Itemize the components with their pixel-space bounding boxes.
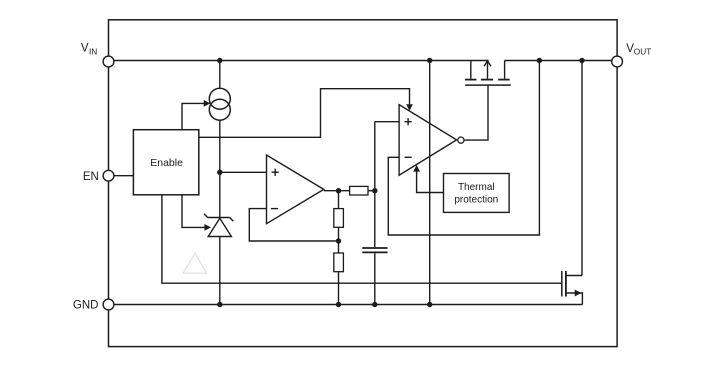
op-amp U1 error amplifier (267, 155, 324, 224)
label VOUT (626, 43, 651, 57)
Enable block (133, 130, 198, 195)
label GND (73, 300, 99, 312)
svg-text:IN: IN (89, 46, 97, 56)
wire R1 to R2 (338, 227, 340, 253)
junction GND zener (217, 302, 222, 307)
U2 output inverter bubble (458, 137, 464, 143)
wire Enable bias to current source with arrow (182, 100, 210, 130)
pin VIN terminal (103, 56, 114, 67)
wire capacitor to GND (374, 253, 376, 304)
svg-text:protection: protection (454, 194, 498, 205)
svg-text:OUT: OUT (634, 47, 652, 57)
pin VOUT terminal (612, 56, 623, 67)
svg-text:Enable: Enable (150, 157, 183, 169)
wire node to R1 (338, 191, 340, 209)
wire zener to GND (219, 237, 221, 305)
zener diode D1 (204, 214, 233, 237)
pin GND terminal (103, 299, 114, 310)
svg-text:EN: EN (83, 171, 99, 183)
wire VOUT rail (505, 60, 612, 62)
wire U2 output to pass FET gate (464, 85, 488, 140)
junction VIN current source (217, 58, 222, 63)
wire node to driver + input (375, 121, 399, 123)
wire U1 - input feedback (249, 209, 338, 241)
wire Enable to discharge FET gate (162, 195, 561, 283)
junction VOUT sense (537, 58, 542, 63)
label VIN (81, 43, 97, 57)
wire current source to error amp + input (220, 171, 267, 173)
svg-text:V: V (81, 43, 89, 55)
wire VOUT rail to Q2 drain (581, 61, 583, 276)
wire VIN rail (114, 60, 489, 62)
resistor R2 (334, 253, 344, 272)
label EN (83, 171, 99, 183)
wire R3 to node (368, 190, 375, 192)
wire GND rail (114, 304, 583, 306)
wire bias rail VIN to GND (429, 61, 431, 305)
op-amp U2 driver (399, 105, 457, 176)
wire EN to Enable block (114, 175, 133, 177)
junction GND R2 (336, 302, 341, 307)
junction current source U1 input (217, 170, 222, 175)
wire Enable to zener gate with arrow (182, 195, 211, 231)
capacitor C1 (362, 248, 387, 252)
resistor R1 (334, 209, 344, 228)
junction R3 node (372, 188, 377, 193)
wire current source to zener (219, 120, 221, 217)
current source I1 (209, 88, 230, 120)
junction GND bias line (427, 302, 432, 307)
wire VIN to current source (219, 61, 221, 89)
pass transistor Q1 PMOS (465, 61, 511, 86)
junction VOUT Q2 drain (579, 58, 584, 63)
wire node to capacitor (374, 122, 376, 247)
wire Enable to driver opamp with arrow (199, 89, 413, 138)
discharge transistor Q2 NMOS (562, 271, 583, 305)
thermal protection block (444, 174, 510, 213)
wire U2 - input to VOUT sense (388, 61, 539, 236)
junction U1 output (336, 188, 341, 193)
resistor R3 (350, 186, 368, 195)
wire R2 to GND (338, 272, 340, 305)
svg-text:GND: GND (73, 300, 99, 312)
junction VIN bias line (427, 58, 432, 63)
junction R1 R2 feedback (336, 238, 341, 243)
junction GND capacitor (372, 302, 377, 307)
IC boundary box (109, 20, 618, 347)
wire thermal protection to U2 with arrow (413, 165, 443, 193)
svg-text:Thermal: Thermal (458, 182, 495, 193)
wire U1 output (324, 190, 350, 192)
watermark triangle (183, 253, 207, 273)
pin EN terminal (103, 170, 114, 181)
